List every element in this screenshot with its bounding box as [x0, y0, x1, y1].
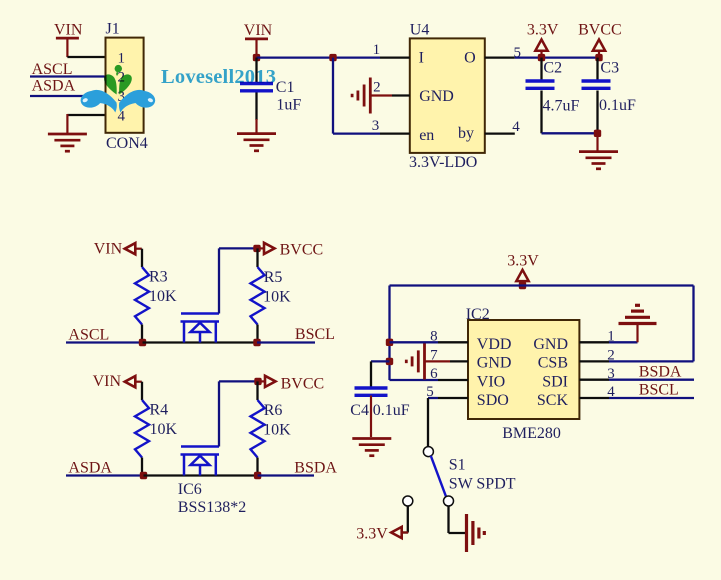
wire ASCL to J1 pin 2	[30, 75, 106, 77]
label C2	[543, 59, 562, 76]
value 0.1uF	[599, 97, 636, 114]
svg-text:2: 2	[373, 79, 381, 95]
svg-text:Lovesell2013: Lovesell2013	[161, 66, 276, 88]
svg-text:IC2: IC2	[466, 306, 490, 323]
svg-text:BSS138*2: BSS138*2	[178, 499, 246, 516]
svg-text:4.7uF: 4.7uF	[543, 98, 580, 115]
svg-text:4: 4	[512, 119, 520, 135]
U4 pin 4	[485, 119, 520, 135]
junction (BVCC/C3)	[595, 54, 602, 61]
power port VIN (top-middle)	[244, 22, 273, 58]
watermark logo	[79, 65, 157, 113]
power port BVCC (row1)	[258, 242, 324, 259]
capacitor C4	[355, 361, 388, 437]
wire J1 pin 4 to ground	[67, 114, 106, 134]
value 10K (R5)	[263, 289, 291, 306]
label R6	[264, 402, 283, 419]
label S1	[449, 456, 466, 473]
svg-text:10K: 10K	[150, 421, 178, 438]
svg-text:CSB: CSB	[538, 355, 568, 372]
svg-text:J1: J1	[106, 20, 120, 37]
svg-text:GND: GND	[477, 355, 512, 372]
svg-text:3: 3	[372, 118, 380, 134]
value 10K (R6)	[263, 422, 291, 439]
svg-text:CON4: CON4	[106, 135, 148, 152]
svg-text:GND: GND	[419, 88, 454, 105]
ground (IC2 pin 1, inverted)	[619, 305, 657, 323]
label R5	[264, 269, 283, 286]
svg-text:VIN: VIN	[94, 241, 123, 258]
IC2 pin 3	[579, 366, 614, 382]
wire ASCL to MOSFET	[143, 341, 258, 343]
svg-text:GND: GND	[533, 336, 568, 353]
svg-text:S1: S1	[449, 456, 466, 473]
svg-text:SDO: SDO	[477, 392, 509, 409]
wire to U4 pin 3 (en)	[333, 58, 380, 134]
svg-text:3.3V-LDO: 3.3V-LDO	[409, 154, 477, 171]
value 10K (R4)	[150, 421, 178, 438]
svg-text:8: 8	[430, 329, 438, 345]
label C4	[350, 402, 369, 419]
junction (R6/BSDA)	[254, 472, 261, 479]
svg-text:BVCC: BVCC	[280, 242, 324, 259]
net label ASCL	[68, 327, 109, 344]
IC2 pin 6	[430, 366, 468, 382]
power port BVCC (row2)	[259, 375, 325, 392]
IC2 pin 7	[425, 347, 468, 363]
transistor Q1 (BSS138 half, row1)	[181, 314, 220, 343]
junction (R6/BVCC row2)	[254, 378, 261, 385]
wire pin1 to ground	[609, 324, 638, 343]
wire to ground	[596, 133, 598, 151]
IC2 pin 4	[579, 384, 615, 400]
svg-text:BSDA: BSDA	[639, 364, 682, 381]
wire BSDA	[258, 474, 314, 476]
svg-text:U4: U4	[410, 21, 430, 38]
svg-text:C3: C3	[600, 59, 619, 76]
svg-text:BSDA: BSDA	[294, 460, 337, 477]
wire to VDD pin	[390, 341, 439, 343]
svg-text:ASDA: ASDA	[68, 459, 112, 476]
power port VIN (row2)	[93, 373, 142, 390]
svg-text:10K: 10K	[263, 289, 291, 306]
U4 pin 2	[371, 79, 410, 95]
svg-text:VIN: VIN	[244, 22, 273, 39]
svg-text:C1: C1	[276, 79, 295, 96]
ground (J1 pin 4)	[48, 134, 87, 151]
svg-text:1: 1	[118, 50, 126, 66]
value SW SPDT	[449, 476, 516, 493]
svg-text:I: I	[419, 49, 424, 66]
svg-text:R4: R4	[150, 402, 169, 419]
svg-text:C2: C2	[543, 59, 562, 76]
junction (R5/BVCC row1)	[253, 245, 260, 252]
junction (C4 branch)	[386, 358, 393, 365]
net label BSCL	[295, 326, 335, 343]
wire 3.3V rail	[390, 284, 694, 286]
wire BSDA (right)	[609, 379, 694, 381]
wire ASDA to MOSFET	[144, 474, 258, 476]
svg-text:R6: R6	[264, 402, 283, 419]
svg-text:BVCC: BVCC	[281, 375, 325, 392]
svg-text:ASDA: ASDA	[32, 78, 76, 95]
junction (R3/ASCL)	[139, 339, 146, 346]
svg-text:10K: 10K	[149, 288, 177, 305]
capacitor C3	[582, 58, 611, 134]
IC2 pin names	[477, 336, 569, 409]
net label ASDA	[68, 459, 112, 476]
svg-text:7: 7	[430, 347, 438, 363]
junction (C3/ground)	[594, 130, 601, 137]
IC IC2 body	[466, 306, 580, 419]
junction (3.3V/C2)	[538, 54, 545, 61]
ground (IC2 pin 7, sideways)	[406, 343, 424, 379]
svg-text:SDI: SDI	[542, 373, 568, 390]
capacitor C1	[240, 58, 273, 134]
svg-text:SCK: SCK	[537, 392, 569, 409]
IC U4 body	[410, 21, 485, 153]
power port 3.3V (IC2)	[507, 252, 539, 287]
svg-text:3.3V: 3.3V	[356, 526, 388, 543]
switch S1	[403, 447, 454, 506]
svg-text:10K: 10K	[263, 422, 291, 439]
svg-text:3.3V: 3.3V	[507, 252, 539, 269]
IC2 pin 1	[579, 329, 614, 345]
wire drain to BVCC (row1)	[219, 248, 257, 313]
resistor R3	[135, 249, 149, 343]
ground (S1, sideways right)	[467, 514, 485, 552]
net label ASDA (top-left)	[32, 78, 76, 95]
power port BVCC (top)	[578, 22, 622, 58]
wire drain to BVCC (row2)	[219, 381, 258, 446]
wire U4 pin5 to BVCC	[515, 56, 599, 58]
power port 3.3V (bottom)	[356, 526, 408, 543]
wire SDO to switch	[428, 398, 438, 447]
svg-text:BSCL: BSCL	[295, 326, 335, 343]
U4 pin 1	[373, 42, 410, 58]
svg-text:3.3V: 3.3V	[527, 22, 559, 39]
svg-text:R3: R3	[149, 269, 168, 286]
junction (R5/BSCL)	[253, 339, 260, 346]
net label BSDA	[294, 460, 337, 477]
wire BSCL (right)	[609, 397, 694, 399]
svg-text:VIN: VIN	[93, 373, 122, 390]
net label ASCL (top-left)	[32, 61, 73, 78]
ground (C2/C3)	[579, 152, 618, 169]
transistor Q2 (BSS138 half, row2)	[181, 447, 220, 476]
junction (VIN/C1)	[253, 54, 260, 61]
wire VIN to U4 pin 1	[257, 56, 381, 58]
svg-text:BSCL: BSCL	[639, 382, 679, 399]
svg-text:1: 1	[373, 42, 381, 58]
wire ASCL	[66, 341, 143, 343]
U4 pin names	[419, 49, 476, 144]
ground (C1)	[237, 134, 276, 151]
svg-text:BVCC: BVCC	[578, 22, 622, 39]
wire C2 to C3 bottom	[542, 132, 598, 134]
IC2 pin 8	[430, 329, 468, 345]
IC2 pin 2	[579, 347, 614, 363]
svg-text:VIO: VIO	[477, 373, 505, 390]
svg-text:ASCL: ASCL	[68, 327, 109, 344]
label R3	[149, 269, 168, 286]
svg-text:0.1uF: 0.1uF	[373, 402, 410, 419]
label CON4	[106, 135, 148, 152]
wire rail down-left branch	[390, 286, 439, 381]
value BSS138*2	[178, 499, 246, 516]
wire J1 pin 1	[67, 56, 106, 58]
capacitor C2	[526, 58, 555, 134]
net label BSDA (right)	[639, 364, 682, 381]
svg-text:BME280: BME280	[502, 425, 561, 442]
svg-text:VIN: VIN	[54, 21, 83, 38]
wire switch to ground	[449, 506, 467, 533]
junction (en branch)	[329, 54, 336, 61]
wire BSCL	[257, 341, 315, 343]
value 10K (R3)	[149, 288, 177, 305]
value 4.7uF	[543, 98, 580, 115]
watermark text Lovesell2013	[161, 66, 276, 88]
value BME280	[502, 425, 561, 442]
U4 pin 3	[372, 118, 410, 134]
svg-text:2: 2	[607, 347, 615, 363]
wire rail down-right branch	[609, 286, 694, 362]
label R4	[150, 402, 169, 419]
svg-text:6: 6	[430, 366, 438, 382]
net label BSCL (right)	[639, 382, 679, 399]
junction (3.3V rail)	[519, 282, 526, 289]
power port VIN (top-left)	[54, 21, 83, 57]
junction (R4/ASDA)	[140, 472, 147, 479]
wire switch to 3.3V	[403, 506, 408, 533]
value 0.1uF (C4)	[373, 402, 410, 419]
junction (VDD branch)	[386, 339, 393, 346]
svg-text:by: by	[458, 125, 474, 142]
svg-text:SW SPDT: SW SPDT	[449, 476, 516, 493]
svg-text:O: O	[464, 49, 476, 66]
wire ASDA	[66, 474, 144, 476]
value 3.3V-LDO	[409, 154, 477, 171]
svg-text:VDD: VDD	[477, 336, 512, 353]
wire ASDA to J1 pin 3	[30, 95, 106, 97]
ground (C4)	[352, 439, 391, 456]
value 1uF	[276, 96, 301, 113]
svg-text:C4: C4	[350, 402, 369, 419]
label C1	[276, 79, 295, 96]
svg-text:0.1uF: 0.1uF	[599, 97, 636, 114]
ground (U4 pin 2, sideways)	[352, 78, 370, 114]
power port 3.3V (top)	[527, 22, 559, 58]
label IC6	[178, 481, 202, 498]
svg-text:R5: R5	[264, 269, 283, 286]
U4 pin 5	[485, 45, 521, 61]
IC2 pin 5	[426, 384, 468, 400]
power port VIN (row1)	[94, 241, 142, 258]
wire to C4	[371, 360, 390, 362]
svg-text:1uF: 1uF	[276, 96, 301, 113]
svg-text:en: en	[419, 127, 434, 144]
resistor R5	[251, 248, 265, 342]
connector J1	[106, 20, 144, 132]
resistor R6	[251, 381, 265, 475]
resistor R4	[135, 382, 149, 476]
svg-text:IC6: IC6	[178, 481, 202, 498]
label C3	[600, 59, 619, 76]
